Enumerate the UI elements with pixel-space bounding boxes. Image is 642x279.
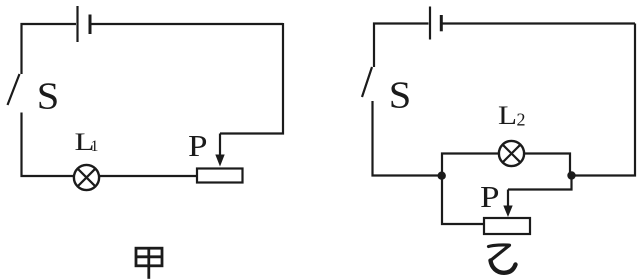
rheostat P (left circuit) body	[197, 169, 243, 183]
svg-text:S: S	[37, 76, 60, 118]
wire: left circuit right side down and feed to wiper	[220, 23, 283, 134]
lamp L2	[499, 141, 524, 166]
svg-text:2: 2	[517, 110, 526, 130]
battery B2 short plate	[440, 15, 443, 31]
wire: right circuit battery to top-right corner	[443, 22, 636, 24]
switch S (left circuit) blade	[8, 74, 20, 105]
svg-text:P: P	[188, 128, 208, 163]
rheostat P (right circuit) wiper arrow	[503, 190, 512, 218]
svg-text:L: L	[498, 101, 517, 130]
wire: lamp L1 to rheostat body	[100, 175, 198, 177]
wire: switch lower terminal down to bottom and to lamp	[22, 113, 75, 177]
wire: rheostat branch from node A down to body	[442, 176, 484, 225]
rheostat P (right circuit) body	[484, 218, 530, 234]
wire: left circuit battery to top-right corner	[91, 23, 283, 25]
battery B1 short plate	[89, 15, 92, 35]
wire: right circuit right side down to node B	[572, 24, 636, 176]
svg-text:P: P	[480, 179, 500, 214]
wire: right switch lower terminal down to node A	[373, 101, 443, 176]
wire: right circuit top-left from battery to switch top contact	[374, 24, 429, 68]
node A (left junction dot)	[438, 172, 446, 180]
svg-text:1: 1	[91, 138, 99, 155]
wire: lamp branch from node A up and across to node B	[442, 154, 499, 176]
rheostat P (right circuit) wiper feed from node B	[508, 176, 572, 190]
battery B1 long plate	[76, 6, 78, 42]
svg-text:S: S	[389, 75, 412, 117]
switch S (right circuit) blade	[362, 67, 372, 97]
battery B2 long plate	[429, 7, 431, 40]
wire: lamp L2 right side down to node B	[525, 154, 571, 176]
label 乙 (yi)	[489, 245, 516, 273]
wire: left circuit top-left from battery to switch top contact	[22, 24, 77, 74]
label 甲 (jia)	[136, 247, 162, 279]
rheostat P (left circuit) wiper arrow	[215, 134, 224, 167]
lamp L1	[74, 165, 99, 190]
node B (right junction dot)	[567, 171, 575, 179]
